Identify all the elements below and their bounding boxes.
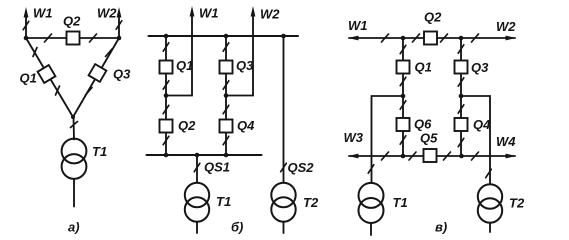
disconnector slash on T2 lead (v)	[486, 169, 492, 177]
disconnector slash above Q2 (b)	[163, 105, 169, 113]
breaker Q3 (v)	[455, 61, 468, 74]
arrowhead W1 (b)	[190, 6, 195, 17]
node apex (a)	[71, 115, 75, 119]
wire branch 2 vertical Q3-Q4 (b)	[225, 36, 227, 155]
arrowhead W1 (a)	[24, 7, 29, 18]
arrowhead W3 (v)	[348, 154, 359, 159]
svg-text:W4: W4	[496, 134, 516, 149]
disconnector slash right of Q2 (v)	[441, 34, 448, 42]
transformer T1 (a)	[62, 139, 87, 164]
wire left branch vertical (v)	[402, 38, 404, 156]
svg-text:б): б)	[231, 220, 243, 235]
disconnector QS2 slash (b)	[281, 163, 287, 171]
breaker Q2 (a)	[67, 32, 80, 45]
wire below transformer T2 (v)	[489, 223, 491, 232]
breaker Q4 (v)	[455, 118, 468, 131]
disconnector slash right of Q2 (a)	[90, 34, 97, 42]
wire T1 lead below bottom bus (b)	[196, 155, 198, 183]
wire top edge of triangle (a)	[26, 37, 119, 39]
wire below transformer T2 (b)	[283, 222, 285, 233]
disconnector slash left of Q2 (a)	[45, 34, 52, 42]
arrowhead W2 (v)	[506, 36, 517, 41]
wire right edge of triangle (a)	[73, 38, 119, 117]
svg-text:Q1: Q1	[176, 58, 193, 73]
disconnector slash upper-right edge (a)	[106, 49, 113, 57]
svg-text:Q2: Q2	[424, 10, 442, 25]
svg-text:QS2: QS2	[288, 160, 315, 175]
disconnector slash upper-left edge (a)	[33, 48, 37, 57]
node C bottom-left junction (v)	[401, 154, 406, 159]
node B top-right junction (v)	[459, 36, 464, 41]
arrowhead W4 (v)	[506, 154, 517, 159]
transformer T2 (v)	[478, 184, 502, 208]
svg-text:T1: T1	[393, 195, 408, 210]
node T2 feed on top bus (b)	[281, 34, 286, 39]
disconnector slash above Q1 (b)	[163, 43, 169, 51]
transformer T1 (b)	[185, 183, 209, 207]
disconnector slash on W1 feeder (a)	[23, 21, 29, 29]
disconnector QS1 slash (b)	[194, 163, 200, 171]
transformer T1 (v)	[359, 183, 384, 208]
svg-text:Q3: Q3	[236, 58, 254, 73]
node branch1 / W1 tap (b)	[164, 93, 169, 98]
wire below transformer T1 (v)	[370, 223, 372, 235]
svg-text:W1: W1	[199, 6, 219, 21]
svg-text:Q4: Q4	[237, 118, 255, 133]
breaker Q2 (b)	[160, 120, 173, 133]
wire apex to transformer (a)	[73, 117, 76, 140]
disconnector slash below Q4 (v)	[458, 138, 464, 146]
node E mid-left tap (v)	[401, 94, 406, 99]
disconnector slash below Q1 (b)	[163, 81, 169, 89]
top busbar (b)	[149, 35, 299, 37]
node top-right corner (a)	[117, 36, 122, 41]
breaker Q3 (a)	[89, 64, 107, 82]
transformer T2 (b)	[271, 183, 295, 207]
arrowhead W2 (b)	[251, 6, 256, 17]
disconnector slash W4 side (v)	[472, 152, 479, 160]
svg-text:Q1: Q1	[20, 71, 37, 86]
node T1 feed on bottom bus (b)	[195, 153, 200, 158]
wire below transformer T1 (b)	[196, 222, 198, 233]
svg-text:W1: W1	[33, 6, 53, 21]
svg-text:Q2: Q2	[178, 118, 196, 133]
breaker Q1 (v)	[397, 61, 410, 74]
wire top line W1-W2 (v)	[349, 37, 515, 39]
wire T2 tap stub from node F (v)	[461, 96, 490, 184]
svg-text:W3: W3	[344, 130, 364, 145]
disconnector slash below Q3 (b)	[223, 81, 229, 89]
svg-text:W2: W2	[496, 19, 516, 34]
breaker Q3 (b)	[220, 61, 233, 74]
breaker Q5 (v)	[424, 149, 437, 162]
disconnector slash below Q2 (b)	[163, 136, 169, 144]
disconnector slash on W2 feeder (a)	[116, 21, 122, 29]
disconnector slash lower-right edge (a)	[86, 88, 93, 96]
svg-text:Q1: Q1	[415, 60, 432, 75]
svg-text:T2: T2	[303, 195, 319, 210]
breaker Q4 (b)	[220, 120, 233, 133]
svg-text:а): а)	[68, 220, 80, 235]
wire W2 feeder vertical (b)	[226, 11, 253, 96]
disconnector slash below Q3 (v)	[458, 78, 464, 86]
svg-text:QS1: QS1	[204, 160, 230, 175]
node branch1 on bottom bus (b)	[164, 153, 169, 158]
wire left edge of triangle (a)	[26, 38, 73, 117]
wire W1 feeder vertical (b)	[166, 11, 192, 96]
disconnector slash lower-left edge (a)	[56, 86, 60, 95]
svg-text:Q4: Q4	[473, 117, 491, 132]
node branch2 on bottom bus (b)	[224, 153, 229, 158]
disconnector slash W1 side (v)	[382, 34, 389, 42]
wire T2 lead from top bus (b)	[283, 36, 285, 183]
disconnector slash above Q6 (v)	[400, 101, 406, 109]
wire bottom line W3-W4 (v)	[349, 155, 515, 157]
breaker Q6 (v)	[397, 118, 410, 131]
arrowhead W1 (v)	[348, 36, 359, 41]
disconnector slash on T1 lead (v)	[368, 165, 374, 173]
wire below transformer T1 (a)	[73, 179, 75, 207]
wire branch 1 vertical Q1-Q2 (b)	[165, 36, 167, 155]
breaker Q1 (b)	[160, 61, 173, 74]
disconnector slash left of Q5 (v)	[409, 152, 416, 160]
svg-text:T1: T1	[92, 144, 107, 159]
disconnector slash above Q1 (v)	[400, 45, 406, 53]
disconnector slash W2 side (v)	[472, 34, 479, 42]
svg-text:W2: W2	[260, 7, 280, 22]
svg-text:Q3: Q3	[471, 60, 489, 75]
svg-text:T1: T1	[216, 194, 231, 209]
disconnector slash W3 side (v)	[382, 152, 389, 160]
disconnector slash below Q6 (v)	[400, 136, 406, 144]
svg-text:W2: W2	[97, 6, 117, 21]
node branch1 on top bus (b)	[164, 34, 169, 39]
disconnector slash on transformer lead (a)	[71, 122, 78, 128]
wire W1 feeder vertical (a)	[25, 12, 27, 38]
svg-text:Q6: Q6	[414, 117, 432, 132]
disconnector slash right of Q5 (v)	[444, 152, 451, 160]
disconnector slash above Q3 (v)	[458, 45, 464, 53]
svg-text:T2: T2	[509, 196, 525, 211]
node F mid-right tap (v)	[459, 94, 464, 99]
svg-text:Q3: Q3	[113, 67, 131, 82]
disconnector slash above Q4 (b)	[223, 105, 229, 113]
disconnector slash below Q4 (b)	[223, 136, 229, 144]
breaker Q1 (a)	[38, 65, 56, 83]
bottom busbar (b)	[147, 154, 262, 156]
node branch2 on top bus (b)	[224, 34, 229, 39]
node D bottom-right junction (v)	[459, 154, 464, 159]
disconnector slash below Q1 (v)	[400, 77, 406, 85]
arrowhead W2 (a)	[117, 7, 122, 18]
node branch2 / W2 tap (b)	[224, 93, 229, 98]
breaker Q2 (v)	[424, 32, 437, 45]
node A top-left junction (v)	[401, 36, 406, 41]
disconnector slash left of Q2 (v)	[413, 34, 420, 42]
wire right branch vertical (v)	[460, 38, 462, 156]
node top-left corner (a)	[24, 36, 29, 41]
svg-text:Q2: Q2	[63, 14, 81, 29]
wire W2 feeder vertical (a)	[118, 12, 120, 38]
svg-text:в): в)	[435, 220, 447, 235]
svg-text:W1: W1	[348, 18, 368, 33]
wire T1 tap stub from node E (v)	[372, 96, 404, 183]
disconnector slash above Q4 (v)	[458, 105, 464, 113]
disconnector slash above Q3 (b)	[223, 43, 229, 51]
svg-text:Q5: Q5	[420, 131, 438, 146]
